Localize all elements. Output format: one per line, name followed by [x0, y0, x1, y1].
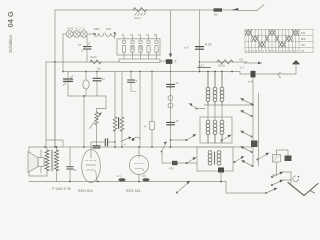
resistor R1 on top bus	[133, 8, 147, 20]
bank box (tuning unit)	[117, 39, 160, 55]
wire bottom bus y181.5	[29, 181, 226, 183]
wire sub loop left	[68, 72, 106, 97]
svg-text:5: 5	[259, 49, 261, 53]
svg-text:ca: ca	[78, 43, 82, 47]
wire T3 box top leads	[208, 105, 222, 120]
switch S1 bus	[252, 78, 254, 167]
switch table grid	[245, 30, 313, 53]
svg-text:41: 41	[122, 33, 125, 37]
svg-text:4: 4	[286, 49, 288, 53]
capacitor C13 on bottom bus	[142, 174, 150, 182]
electrolytic C10 on right bus	[248, 71, 256, 84]
capacitor C1 trimmer	[78, 43, 91, 63]
svg-text:(+: (+	[144, 124, 147, 128]
svg-text:45: 45	[154, 33, 157, 37]
switch S1 bus second	[258, 93, 260, 166]
switch S6 top right of area	[257, 153, 270, 161]
switch S5 contact c	[258, 188, 277, 194]
wire top bus	[55, 5, 264, 11]
svg-text:4: 4	[124, 143, 126, 147]
svg-text:LW: LW	[301, 43, 305, 47]
svg-text:4: 4	[256, 49, 258, 53]
fuse F1	[273, 150, 281, 168]
svg-text:04 G: 04 G	[6, 11, 15, 27]
bank branch 1	[122, 33, 126, 55]
wire bus y147	[29, 146, 252, 148]
wire from L3 down to bank	[114, 33, 116, 39]
svg-text:546 4,2 h: 546 4,2 h	[67, 27, 85, 31]
node x55 top bus end	[54, 61, 56, 63]
coil L2 (humps)	[94, 27, 104, 36]
switch S1 contact d	[241, 146, 253, 153]
wire x170 drop to bus147	[170, 72, 172, 148]
wire y140 right with switch S2	[171, 139, 187, 141]
svg-text:2n: 2n	[176, 81, 180, 85]
svg-text:6: 6	[293, 49, 295, 53]
svg-text:4,5: 4,5	[239, 58, 244, 62]
svg-text:2: 2	[249, 49, 251, 53]
wire right bus y74	[240, 72, 296, 75]
node under L1	[86, 36, 88, 44]
indicator circles on x170	[168, 96, 173, 109]
wire bottom right step	[226, 182, 258, 194]
wire y140 segment	[46, 140, 63, 147]
svg-text:3: 3	[283, 49, 285, 53]
svg-text:6: 6	[262, 49, 264, 53]
IF transformer T2 windings	[206, 71, 224, 105]
oscillator box T4	[197, 147, 233, 171]
wire trunk A lower	[170, 64, 172, 72]
oscillator windings	[208, 151, 221, 166]
svg-text:9: 9	[273, 49, 275, 53]
transformer T1 core	[51, 150, 53, 171]
wire trunk A	[170, 10, 172, 54]
IF transformer T3 windings	[206, 120, 224, 143]
wire left drop x47	[45, 62, 47, 147]
bank branch 5	[154, 33, 158, 55]
title text Schaleco 04G	[6, 11, 15, 53]
wire trunk B	[199, 10, 201, 72]
motor symbol	[293, 176, 300, 182]
capacitor C8 stub	[128, 71, 138, 92]
potentiometer arrow P2	[176, 181, 190, 194]
svg-text:5: 5	[289, 49, 291, 53]
resistor R5 heater right	[120, 72, 124, 148]
switch S1 contact e	[242, 160, 254, 167]
svg-text:0,1: 0,1	[117, 174, 121, 178]
IF transformer T3 box	[200, 117, 232, 143]
svg-text:KW: KW	[106, 27, 111, 31]
coil L3 (humps)	[106, 27, 116, 36]
wire left screen line	[46, 61, 119, 63]
svg-text:MW: MW	[301, 37, 306, 41]
svg-text:2200: 2200	[218, 64, 225, 68]
core bar between R4 R5	[118, 118, 120, 129]
potentiometer P1	[90, 96, 107, 146]
capacitor C14 on x170	[167, 81, 180, 87]
wire main bus y71.5	[63, 71, 240, 73]
speaker LS cone	[28, 152, 44, 173]
svg-text:8: 8	[269, 49, 271, 53]
arrow wiper on trunk A	[169, 54, 172, 58]
svg-text:1M: 1M	[214, 13, 219, 17]
wire from L1 to coils	[87, 33, 93, 35]
label L5 underlined	[198, 64, 211, 68]
svg-text:2: 2	[279, 49, 281, 53]
svg-text:44: 44	[146, 33, 149, 37]
capacitor C12 on bottom bus	[117, 174, 126, 182]
svg-text:1: 1	[246, 49, 248, 53]
svg-text:KW: KW	[301, 31, 306, 35]
capacitor C6	[93, 146, 100, 148]
wire tube V1 anode	[83, 96, 85, 147]
svg-text:RES 164: RES 164	[126, 189, 140, 193]
wire under T2	[204, 104, 252, 106]
node y96	[83, 95, 85, 97]
wire fuse area	[272, 150, 288, 175]
node trunk B / line	[199, 61, 201, 63]
switch S9 small arrow above bus	[121, 137, 132, 147]
speaker wires	[29, 147, 41, 176]
svg-text:4n: 4n	[176, 119, 180, 123]
trimmer capacitor C4	[63, 76, 73, 86]
resistor R2 2200	[217, 58, 244, 68]
node bus y147 x45	[44, 146, 46, 148]
capacitor C3 on trunk B	[184, 46, 204, 50]
svg-text:(+): (+)	[240, 66, 244, 70]
svg-text:(+4): (+4)	[248, 80, 253, 84]
wire gang bar to C2	[160, 60, 166, 62]
svg-text:3: 3	[252, 49, 254, 53]
mains V wires	[288, 183, 318, 196]
capacitor C5	[93, 71, 105, 96]
svg-text:P 1264 D 39: P 1264 D 39	[52, 187, 71, 191]
svg-text:A 23: A 23	[205, 43, 212, 47]
wire right bus riser	[295, 64, 297, 74]
svg-text:(L5.): (L5.)	[198, 64, 204, 68]
switch table numbers	[246, 49, 299, 53]
bank stubs to gang bar	[124, 55, 157, 59]
svg-text:43: 43	[138, 33, 141, 37]
lamp symbol	[279, 73, 281, 78]
transformer T1 secondary	[55, 147, 59, 171]
wire x162 drop	[161, 152, 163, 163]
svg-text:470: 470	[169, 167, 174, 171]
svg-text:4n: 4n	[102, 77, 106, 81]
capacitor C9	[67, 147, 77, 182]
arrow heater feed	[240, 62, 262, 70]
switch S1 contact a	[241, 98, 253, 105]
svg-text:MW: MW	[94, 27, 99, 31]
resistor R4 heater left	[113, 72, 117, 148]
arrow on top bus	[232, 8, 238, 10]
switch S7 contact	[189, 104, 205, 110]
switch table labels	[301, 31, 306, 53]
switch table X marks	[245, 30, 298, 47]
svg-text:Schaleco: Schaleco	[8, 34, 13, 53]
wire speaker bottom	[29, 170, 57, 182]
tube V1 envelope	[82, 150, 101, 183]
switch S2 contact a	[186, 134, 197, 141]
resistor R7 on top bus	[214, 8, 223, 16]
switch S4 contact right of box	[234, 156, 245, 163]
node x63 bus	[62, 71, 64, 73]
svg-text:4,5: 4,5	[142, 174, 146, 178]
gang bar	[119, 59, 160, 62]
terminal triangle	[292, 60, 300, 64]
component box dark	[285, 156, 292, 162]
svg-text:2n: 2n	[74, 168, 78, 172]
electrolytic C16 between switch buses	[251, 141, 258, 148]
bank branch 3	[138, 33, 142, 55]
switch S1 contact b	[241, 110, 253, 117]
wire x140 drop	[132, 71, 141, 147]
svg-text:42: 42	[130, 33, 133, 37]
svg-text:TA: TA	[301, 49, 304, 53]
svg-text:7: 7	[266, 49, 268, 53]
switch S5 contact a	[271, 172, 291, 178]
node trunk A y140	[170, 139, 172, 141]
svg-text:2x0,1: 2x0,1	[134, 16, 141, 20]
antenna coil L1 (three crossed circles)	[63, 27, 87, 38]
capacitor C15 on x170	[167, 119, 180, 125]
svg-text:1: 1	[276, 49, 278, 53]
node trunk A / bus	[170, 71, 172, 73]
svg-text:REN 904: REN 904	[78, 189, 93, 193]
component R6 on y163	[169, 161, 178, 171]
bank branch 2	[130, 33, 134, 55]
wire y163	[162, 162, 197, 164]
switch S5 contact b	[271, 180, 291, 186]
wire x152 drop	[144, 71, 155, 147]
switch S8 arm from bus	[161, 142, 167, 153]
tube V2 envelope	[129, 147, 148, 182]
wire screen line	[200, 61, 248, 63]
jack J1 oval	[83, 71, 89, 96]
capacitor C2 electrolytic	[166, 59, 177, 64]
bank branch 4	[146, 33, 150, 55]
resistor R3 on left screen line	[90, 55, 101, 64]
wire x55 continues	[54, 62, 56, 147]
capacitor C11 under box	[218, 167, 224, 182]
svg-text:2m: 2m	[97, 67, 102, 71]
switch S2 contact b	[221, 135, 232, 142]
svg-text:7: 7	[296, 49, 298, 53]
svg-text:(+5: (+5	[184, 46, 189, 50]
svg-text:4x44: 4x44	[90, 55, 97, 59]
svg-text:6: 6	[136, 79, 138, 83]
switch S3 contact	[186, 157, 197, 164]
wire S5 bus	[290, 172, 292, 185]
grid line y142 with capacitor C7	[91, 139, 116, 149]
wire x63 from L1 down	[62, 34, 64, 72]
svg-text:6: 6	[175, 60, 177, 64]
transformer T1 primary	[45, 147, 49, 171]
wire left drop from top bus	[54, 10, 56, 147]
switch S1 contact c	[241, 131, 253, 138]
